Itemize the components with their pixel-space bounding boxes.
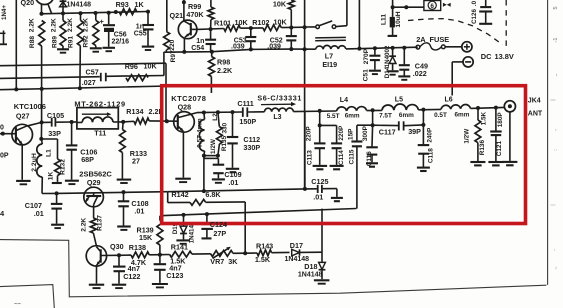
capacitor C122 4n7 (112, 253, 141, 288)
inductor L6 0.5T 6mm (434, 97, 504, 119)
svg-text:Q29: Q29 (87, 178, 101, 187)
capacitor C53 .039 (231, 28, 256, 50)
fuse F1 2A (416, 35, 462, 50)
svg-text:0.5T 4mm: 0.5T 4mm (196, 118, 203, 148)
svg-text:Q20: Q20 (21, 0, 35, 7)
svg-text:DC: DC (481, 52, 492, 61)
svg-text:5.5T: 5.5T (327, 113, 340, 120)
connector box circled 6 (424, 1, 451, 11)
wire L7 output y47.5 (346, 46, 418, 51)
potentiometer VR7 3K (210, 247, 247, 267)
transformer T11 MT-262-1129 (74, 99, 125, 137)
capacitor C49 .022 (398, 48, 428, 80)
svg-text:R91: R91 (67, 36, 74, 48)
resistor R143 1.5K (245, 241, 289, 263)
svg-text:R134: R134 (126, 107, 143, 116)
page border bottom (0, 240, 546, 297)
transistor Q20 (clipped at top) (21, 0, 55, 14)
resistor R132 1K (41, 139, 66, 183)
svg-text:6mm: 6mm (345, 113, 360, 120)
label cut 0P (0, 152, 9, 159)
svg-text:6.8K: 6.8K (205, 190, 221, 199)
capacitor C121 180P (488, 108, 504, 166)
svg-text:S6-C/33331: S6-C/33331 (257, 94, 302, 103)
svg-text:220P: 220P (306, 126, 313, 142)
svg-text:.039: .039 (267, 43, 281, 50)
capacitor C109 .01 (204, 156, 242, 192)
svg-text:.022: .022 (413, 69, 427, 78)
svg-text:C114: C114 (338, 150, 345, 165)
svg-text:68P: 68P (81, 155, 94, 164)
capacitor C112 330P (226, 112, 261, 172)
highlight red box (162, 86, 526, 224)
corner block bottom-left (0, 285, 54, 308)
svg-text:2.2uH: 2.2uH (31, 153, 38, 172)
svg-text:R92: R92 (83, 35, 90, 47)
svg-text:C57: C57 (86, 67, 99, 76)
svg-text:C113: C113 (307, 150, 314, 165)
node L4-L5 riser (371, 110, 375, 127)
resistor R101 10K (214, 18, 253, 31)
svg-text:220: 220 (169, 39, 176, 50)
svg-text:~~: ~~ (14, 302, 22, 308)
svg-text:1.5K: 1.5K (481, 111, 488, 125)
svg-text:VR7: VR7 (210, 257, 224, 266)
resistor R141 1.5K (160, 242, 211, 265)
svg-text:10uH: 10uH (395, 11, 402, 27)
switch S? power (305, 0, 347, 29)
svg-text:1.5K: 1.5K (170, 256, 186, 265)
svg-text:150P: 150P (239, 117, 256, 126)
wire T11 out (72, 120, 126, 124)
inductor L4 5.5T 6mm (327, 97, 382, 120)
inductor L3 (265, 108, 337, 121)
svg-text:C54: C54 (191, 45, 204, 52)
svg-text:C115: C115 (348, 149, 355, 164)
rail RF main (197, 110, 242, 114)
wire vertical x359.4 (358, 0, 360, 49)
svg-text:ANT: ANT (528, 110, 543, 117)
svg-text:.0: .0 (471, 0, 478, 6)
svg-text:R137: R137 (96, 215, 103, 231)
wire y52 bus (164, 47, 316, 54)
svg-text:-1: -1 (553, 38, 559, 43)
transformer L7 EI19 (315, 37, 346, 68)
wire vertical x16 (15, 0, 17, 89)
right margin faint text 2 (551, 99, 561, 270)
svg-text:Q28: Q28 (178, 102, 192, 111)
wire top rail y13.7 (40, 10, 151, 16)
wire top y7 (391, 5, 424, 9)
svg-text:6mm: 6mm (455, 111, 470, 118)
svg-text:KTC1006: KTC1006 (14, 102, 46, 111)
inductor L5 7.5T 6mm (379, 96, 441, 119)
svg-text:R89: R89 (51, 36, 58, 48)
capacitor C124 27P (201, 214, 226, 238)
wire R142 bus (168, 187, 307, 193)
svg-text:180P: 180P (497, 112, 504, 128)
inductor L1 2.2uH (31, 122, 53, 193)
wire Q29 base bus y192 (57, 190, 168, 194)
capacitor C123 4n7 (152, 255, 183, 288)
svg-text:220P: 220P (338, 125, 345, 141)
label S6-C/33331 (257, 94, 302, 107)
svg-text:1N4148: 1N4148 (298, 272, 323, 279)
svg-text:C122: C122 (123, 272, 140, 281)
capacitor C55 1n (134, 12, 154, 50)
transistor Q27 KTC1006 (0, 102, 46, 184)
capacitor C56 22/16 electrolytic (100, 13, 130, 51)
capacitor C111 150P (237, 99, 264, 126)
resistor R137 2.2K (81, 215, 104, 246)
resistor R133 27 (117, 122, 147, 183)
svg-text:1K: 1K (135, 0, 145, 9)
wire riser x305 (304, 111, 306, 188)
wire Q21 base y29 (197, 27, 224, 31)
svg-text:39P: 39P (408, 127, 421, 136)
svg-text:330P: 330P (243, 143, 260, 152)
svg-text:.027: .027 (82, 78, 96, 87)
svg-text:.01: .01 (134, 206, 144, 215)
svg-text:240P: 240P (426, 127, 433, 143)
resistor R102 10K (251, 18, 305, 31)
wire A y64 (0, 63, 166, 65)
svg-text:15K: 15K (139, 233, 153, 242)
diode D? 1N4148 at top (60, 0, 92, 13)
svg-text:C124: C124 (210, 220, 227, 229)
svg-text:C121: C121 (496, 141, 503, 157)
svg-text:.01: .01 (34, 209, 44, 218)
label cut 0 (0, 124, 4, 131)
svg-text:0: 0 (0, 124, 4, 131)
svg-text:FUSE: FUSE (430, 35, 450, 44)
svg-text:2.2K: 2.2K (83, 18, 90, 32)
svg-text:.01: .01 (313, 192, 323, 201)
label ANT (528, 110, 543, 117)
capacitor C105 33P (40, 111, 74, 138)
svg-text:R138: R138 (129, 243, 146, 252)
svg-text:1/2W: 1/2W (464, 128, 471, 144)
svg-text:R97: R97 (170, 50, 177, 62)
svg-text:C111: C111 (237, 99, 253, 108)
svg-text:10K: 10K (235, 18, 249, 27)
svg-text:C123: C123 (166, 271, 183, 280)
left edge cut label 1N4 (0, 5, 8, 45)
wire D18 riser (321, 209, 323, 263)
svg-text:6mm: 6mm (399, 112, 414, 119)
svg-text:6: 6 (430, 3, 434, 10)
svg-text:7.5T: 7.5T (379, 112, 392, 119)
svg-text:22/16: 22/16 (112, 39, 130, 46)
capacitor C51 270P (363, 48, 381, 81)
svg-text:L3: L3 (273, 114, 281, 121)
svg-text:2.2K: 2.2K (51, 18, 58, 32)
capacitor C114 220P (320, 125, 345, 169)
svg-text:R136: R136 (479, 140, 486, 156)
inductor L11 10uH (381, 0, 402, 36)
svg-text:2.2K: 2.2K (28, 18, 35, 32)
resistor R134 2.2K (123, 107, 177, 124)
terminal + DC (462, 42, 472, 52)
label C124 over red (210, 220, 227, 229)
resistor R135 330 1/2W (204, 112, 229, 157)
resistor R139 15K (137, 216, 163, 257)
svg-text:5: 5 (553, 6, 559, 9)
resistor R142 6.8K (168, 190, 246, 253)
svg-text:-: - (553, 129, 559, 131)
diode D17 1N4148 (285, 241, 323, 263)
left edge cut label 4 (0, 209, 5, 218)
svg-text:R93: R93 (116, 0, 129, 9)
label JK4 (528, 98, 541, 105)
capacitor C54 1n (191, 29, 216, 52)
transistor Q30 (86, 242, 123, 288)
svg-text:D18: D18 (304, 262, 317, 271)
wire C57 y77 (0, 77, 100, 79)
resistor R91 2.2K (67, 13, 83, 88)
svg-text:EI19: EI19 (322, 60, 337, 69)
resistor R93 1K (116, 0, 145, 15)
svg-text:2.2K: 2.2K (67, 18, 74, 32)
resistor R136 1.5K 1/2W (464, 108, 488, 165)
svg-text:0.5T: 0.5T (434, 112, 447, 119)
capacitor C115 15P (348, 125, 373, 208)
svg-text:L5: L5 (395, 96, 403, 103)
label DC 13.8V (481, 52, 514, 61)
capacitor C106 68P (65, 122, 97, 184)
svg-text:1/2W: 1/2W (210, 138, 217, 154)
svg-text:.039: .039 (231, 43, 245, 50)
resistor R92 2.2K (83, 13, 102, 52)
resistor R96 10K (125, 62, 158, 81)
svg-text:R96: R96 (125, 62, 138, 71)
terminal - DC (452, 57, 473, 96)
svg-text:10K: 10K (273, 0, 287, 9)
resistor R88 2.2K (28, 18, 44, 122)
svg-text:270P: 270P (363, 48, 370, 64)
capacitor C113 220P (306, 111, 328, 169)
wire y89 (0, 86, 168, 91)
capacitor C57 .027 (82, 67, 164, 86)
connector JK4 ANT (502, 101, 517, 166)
svg-text:33P: 33P (48, 129, 61, 138)
capacitor C126 (471, 0, 492, 24)
svg-text:C116: C116 (366, 151, 373, 166)
diode D18 1N4148 (298, 262, 330, 284)
resistor R98 2.2K (209, 52, 233, 93)
svg-text:L4: L4 (340, 97, 348, 104)
inductor L2 0.5T 4mm (196, 113, 219, 158)
svg-text:4.7K: 4.7K (131, 258, 147, 267)
svg-text:R142: R142 (171, 190, 188, 199)
svg-text:13.8V: 13.8V (495, 52, 514, 61)
capacitor C118 240P (417, 110, 435, 171)
capacitor C107 .01 (25, 191, 64, 228)
page border right (547, 0, 549, 285)
capacitor C52 .039 (267, 28, 297, 51)
svg-text:C117: C117 (379, 128, 396, 137)
wire lower bus y214 (160, 209, 356, 217)
svg-text:L1: L1 (46, 149, 53, 157)
svg-text:27P: 27P (213, 229, 226, 238)
svg-text:~: ~ (554, 266, 560, 269)
wire corner R96 up (163, 52, 165, 76)
dashed leader lines (408, 0, 506, 46)
svg-text:.01: .01 (228, 178, 238, 187)
right margin faint text (551, 6, 559, 250)
svg-text:R88: R88 (29, 36, 36, 48)
svg-text:330: 330 (222, 122, 229, 133)
resistor R100 10K (clipped top) (273, 0, 294, 27)
svg-text:15P: 15P (348, 128, 355, 140)
svg-text:470K: 470K (186, 10, 204, 19)
svg-text:C56: C56 (114, 32, 127, 39)
svg-text:Q27: Q27 (16, 112, 30, 121)
capacitor C125 .01 (305, 177, 343, 201)
svg-text:1N4+: 1N4+ (1, 5, 8, 20)
svg-text:JK4: JK4 (528, 98, 541, 105)
capacitor C116 300P (362, 125, 378, 167)
resistor R99 470K (186, 0, 214, 29)
svg-text:0P: 0P (0, 152, 9, 159)
svg-text:C55: C55 (134, 30, 147, 37)
svg-text:300P: 300P (362, 125, 369, 141)
svg-text:2.2K: 2.2K (217, 66, 233, 75)
transistor Q21 (170, 0, 197, 52)
svg-text:L6: L6 (445, 97, 453, 104)
svg-text:27: 27 (132, 156, 140, 165)
diode D14 1N4002 (384, 45, 399, 78)
capacitor C108 .01 (117, 192, 148, 230)
wire B+ vertical x304.6 (303, 0, 307, 189)
svg-text:C125: C125 (311, 177, 328, 186)
wire B+ vertical x166 to Q28 base (165, 63, 167, 121)
transistor Q28 KTC2078 (171, 94, 206, 182)
svg-text:..: .. (553, 73, 559, 77)
transistor Q29 2SB562C (79, 170, 112, 218)
svg-text:Q21: Q21 (170, 11, 184, 20)
svg-text:3K: 3K (228, 257, 238, 266)
svg-text:C118: C118 (427, 148, 434, 163)
resistor R89 2.2K (51, 13, 69, 52)
svg-text:L11: L11 (381, 14, 388, 25)
diode D19 1N4148 (172, 215, 195, 244)
resistor R138 4.7K (119, 243, 160, 267)
svg-text:Q30: Q30 (110, 242, 124, 251)
svg-text:2.2K: 2.2K (81, 218, 88, 232)
svg-text::: : (553, 149, 559, 151)
resistor R97 220 (164, 0, 178, 62)
svg-text:C126: C126 (471, 9, 478, 24)
svg-text:1.5K: 1.5K (255, 255, 271, 264)
svg-text:10K: 10K (144, 62, 158, 71)
svg-text:T11: T11 (94, 128, 106, 137)
capacitor C117 39P (373, 121, 426, 136)
svg-text:C51: C51 (363, 69, 370, 81)
svg-text:1K: 1K (48, 172, 55, 181)
svg-text:R132: R132 (59, 159, 66, 175)
svg-text:1N4148: 1N4148 (67, 2, 92, 9)
